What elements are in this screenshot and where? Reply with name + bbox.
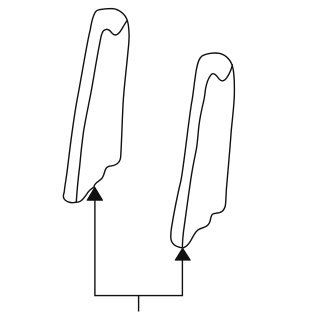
connector bracket: left stem, bottom rail, right stem bbox=[95, 199, 182, 296]
handle scale left: inner edge line with top hook bbox=[76, 21, 127, 202]
arrow right: filled head bbox=[175, 248, 190, 260]
connector bracket: centre stub bbox=[138, 296, 140, 312]
handle scale right: inner edge line with top hook bbox=[182, 65, 232, 247]
handle scale left: outer outline bbox=[63, 9, 129, 203]
handle scale right: outer outline bbox=[171, 53, 235, 248]
arrow left: filled head bbox=[87, 187, 103, 200]
